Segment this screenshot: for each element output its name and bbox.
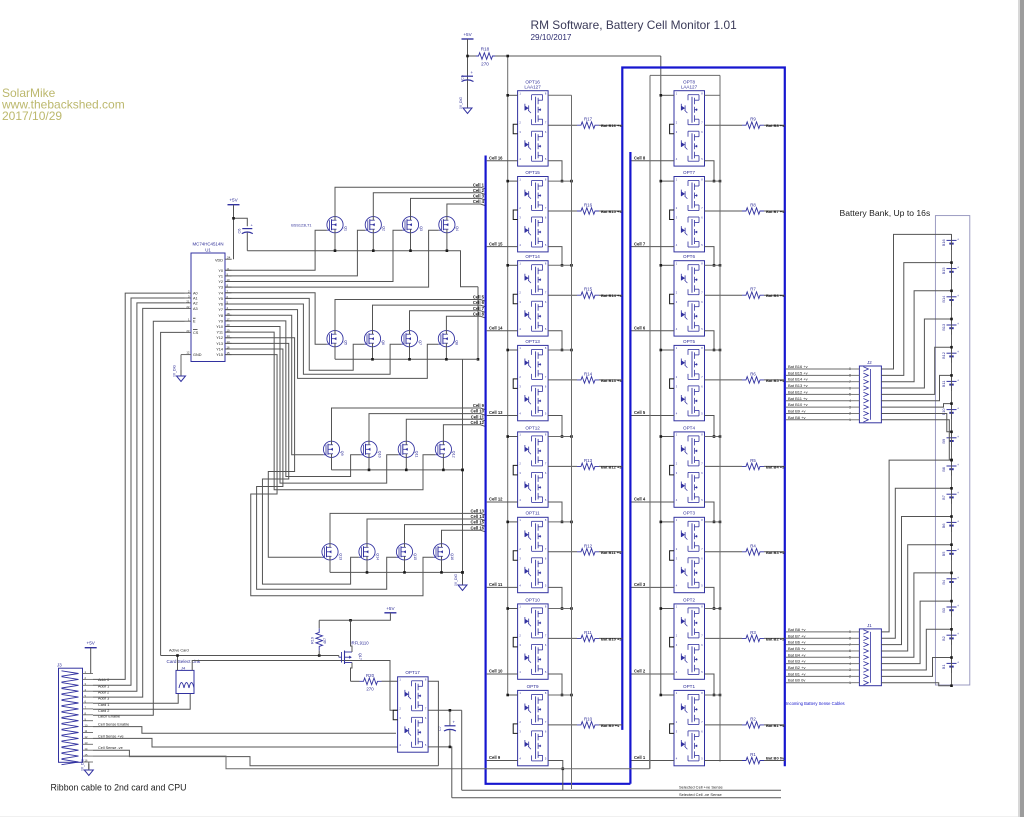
resistor R19: [311, 620, 328, 655]
transistor Q10: [361, 441, 381, 457]
svg-text:Bat B8 +s: Bat B8 +s: [766, 123, 785, 128]
svg-text:OPT11: OPT11: [525, 511, 540, 516]
wire active card: [161, 649, 398, 711]
wires U1 Y8-Y11 to row3 gates: [225, 315, 435, 489]
svg-text:U1: U1: [205, 248, 211, 253]
svg-text:B9: B9: [941, 439, 946, 444]
wire OPT1 pin5 lower resistor R1 feed: [705, 760, 743, 762]
wire OPT8 output via R9 to bus: [705, 123, 786, 128]
svg-text:OPT1: OPT1: [683, 684, 695, 689]
opto-relay OPT14 LAA127: [513, 254, 548, 336]
wire Q10 drain to bus Cell 10: [369, 409, 485, 442]
svg-text:B8: B8: [941, 467, 946, 472]
resistor R18: [466, 47, 495, 67]
opto-relay OPT9 LAA127: [513, 684, 548, 766]
wires U1 Y12-Y15 to row4 gates: [225, 338, 433, 596]
svg-text:R16: R16: [584, 203, 593, 208]
wire OPT8 pin1 rail stub: [660, 94, 721, 97]
connector J1: [849, 623, 881, 686]
power +5V for Q17: [319, 606, 396, 622]
svg-text:Q12: Q12: [452, 451, 456, 458]
wire selected cell +ve sense: [462, 785, 781, 791]
svg-text:0V_DIG: 0V_DIG: [459, 97, 463, 109]
battery B14: [941, 290, 959, 306]
transistor Q2: [365, 217, 385, 233]
wire Q6 drain to bus Cell 6: [373, 300, 485, 330]
battery B6: [941, 516, 959, 532]
svg-text:B6: B6: [941, 523, 946, 528]
resistor R16: [577, 203, 599, 215]
svg-text:Y11: Y11: [217, 331, 223, 335]
wire OPT15 output via R16 to bus: [548, 209, 622, 214]
svg-text:OPT17: OPT17: [405, 670, 420, 675]
svg-text:CS: CS: [193, 331, 199, 335]
wire OPT7 output via R8 to bus: [705, 209, 786, 214]
wire Q16 drain to bus Cell 16: [442, 525, 485, 543]
wire OPT2 pin5 chain: [705, 674, 716, 696]
battery B15: [941, 262, 959, 278]
transistor Q5: [327, 331, 347, 347]
wires J3 card pins to J4: [93, 694, 190, 710]
svg-text:+: +: [957, 435, 959, 439]
wire battery chain: [951, 234, 953, 685]
wire OPT5 pin1 rail stub: [660, 349, 722, 352]
opto-relay OPT4 LAA127: [670, 425, 705, 507]
wire OPT15 pin5 chain: [548, 247, 563, 267]
svg-text:Y10: Y10: [216, 325, 223, 329]
wire OPT7 pin5 chain: [705, 247, 716, 267]
svg-text:Cell 1: Cell 1: [634, 755, 646, 760]
wire OPT12 pin1 rail stub: [506, 435, 572, 438]
wire OPT1 output via R2 to bus: [705, 723, 786, 728]
resistor R12: [577, 543, 599, 555]
svg-text:R6: R6: [750, 371, 756, 376]
wire OPT7 pin1 rail stub: [660, 180, 722, 183]
wire OPT8 pin5 chain: [705, 161, 716, 183]
svg-text:Bat B9 +v: Bat B9 +v: [788, 408, 805, 413]
resistor R17: [577, 117, 599, 129]
svg-text:+: +: [957, 266, 959, 270]
wire OPT11 pin1 rail stub: [506, 521, 572, 524]
svg-text:Bat B4 +v: Bat B4 +v: [788, 652, 805, 657]
opto-relay OPT6 LAA127: [670, 254, 705, 336]
svg-text:Cell 14: Cell 14: [470, 514, 484, 519]
svg-text:Bat B0 0v: Bat B0 0v: [766, 755, 785, 760]
wire bus Cell 14 to OPT14 pin4: [487, 326, 518, 331]
opto-relay OPT11 LAA127: [513, 511, 548, 593]
wire OPT5 output via R6 to bus: [705, 378, 786, 383]
svg-text:Bat B16 +v: Bat B16 +v: [788, 364, 808, 369]
opto-relay OPT3 LAA127: [670, 511, 705, 593]
svg-text:B7: B7: [941, 495, 946, 500]
svg-text:Q1: Q1: [343, 226, 347, 231]
svg-text:+: +: [957, 237, 959, 241]
svg-text:Cell 16: Cell 16: [489, 156, 503, 161]
transistor Q9: [323, 441, 343, 457]
svg-text:Q10: Q10: [377, 451, 381, 458]
wire bus Cell 15 to OPT15 pin4: [487, 241, 518, 246]
svg-text:R2: R2: [750, 716, 756, 721]
battery B3: [941, 601, 959, 617]
svg-text:+5V: +5V: [386, 606, 395, 611]
svg-text:Q7: Q7: [418, 340, 422, 345]
svg-text:A0: A0: [193, 292, 198, 296]
svg-text:+: +: [957, 491, 959, 495]
svg-text:Cell 8: Cell 8: [634, 156, 646, 161]
svg-text:+: +: [957, 294, 959, 298]
svg-text:Addr 0: Addr 0: [98, 678, 109, 682]
svg-text:B10: B10: [941, 408, 946, 416]
svg-text:B12: B12: [941, 352, 946, 359]
battery B1: [941, 657, 959, 673]
wire Q1 drain to bus Cell 1: [335, 182, 485, 216]
svg-text:Bat B15 +v: Bat B15 +v: [788, 370, 808, 375]
svg-text:29/10/2017: 29/10/2017: [531, 33, 572, 42]
wire OPT3 pin1 rail stub: [660, 521, 722, 524]
wire OPT10 pin5 chain: [548, 674, 563, 696]
wire bus Cell 5 to OPT5 pin4: [632, 410, 675, 415]
svg-text:B3: B3: [941, 608, 946, 613]
svg-text:R4: R4: [750, 543, 756, 548]
wire bus Cell 7 to OPT7 pin4: [632, 241, 675, 246]
svg-text:Q3: Q3: [419, 226, 423, 231]
svg-text:Cell 16: Cell 16: [470, 525, 484, 530]
wire OPT13 pin1 rail stub: [506, 349, 572, 352]
svg-text:J3: J3: [57, 663, 62, 668]
svg-text:2017/10/29: 2017/10/29: [2, 109, 62, 123]
bus B right cell bus: [629, 152, 631, 784]
wire row2 source bus: [335, 347, 478, 361]
svg-text:Cell 6: Cell 6: [634, 326, 646, 331]
resistor R8: [742, 203, 764, 215]
svg-text:MC74HC4514N: MC74HC4514N: [193, 242, 224, 247]
svg-text:Battery Bank, Up to 16s: Battery Bank, Up to 16s: [840, 208, 931, 218]
svg-text:Cell 6: Cell 6: [473, 300, 485, 305]
wire bus Cell 1 to OPT1 pin4: [632, 755, 675, 760]
wire U1 CS to active card: [161, 332, 185, 655]
wire bus Cell 8 to OPT8 pin4: [632, 156, 675, 161]
svg-text:VDD: VDD: [215, 258, 223, 262]
wire Q4 drain to bus Cell 4: [447, 199, 485, 217]
wires U1 Y4-Y7 to row2 gates: [225, 293, 438, 379]
wire OPT1 pin1 rail stub: [660, 694, 722, 697]
svg-text:OPT13: OPT13: [525, 339, 540, 344]
svg-text:Cell 10: Cell 10: [470, 409, 484, 414]
svg-text:+5V: +5V: [229, 198, 238, 203]
svg-text:+: +: [957, 322, 959, 326]
wire OPT9 pin5 to sense: [548, 761, 564, 791]
svg-text:OPT9: OPT9: [527, 684, 539, 689]
svg-text:B16: B16: [941, 239, 946, 246]
wire Q2 drain to bus Cell 2: [373, 188, 485, 217]
wire bus Cell 2 to OPT2 pin4: [632, 669, 675, 674]
svg-text:GND: GND: [193, 353, 202, 357]
battery B5: [941, 544, 959, 560]
transistor Q16: [433, 544, 453, 560]
wire bus Cell 3 to OPT3 pin4: [632, 582, 675, 587]
svg-text:IRFL9110: IRFL9110: [351, 641, 370, 646]
opto-relay OPT7 LAA127: [670, 170, 705, 252]
svg-text:B4: B4: [941, 579, 946, 585]
wire OPT4 pin5 chain: [705, 502, 716, 523]
ground for U1: [173, 355, 186, 382]
svg-text:OPT4: OPT4: [683, 425, 695, 430]
svg-text:Q5: Q5: [343, 340, 347, 345]
svg-text:Q13: Q13: [338, 553, 342, 560]
wire right column outer rails: [650, 75, 720, 768]
svg-text:Bat B3 +v: Bat B3 +v: [788, 659, 805, 664]
svg-text:Q6: Q6: [381, 340, 385, 345]
svg-text:Bat B1 +s: Bat B1 +s: [766, 723, 785, 728]
svg-text:Bat B2 +s: Bat B2 +s: [766, 636, 785, 641]
svg-text:Selected Cell -ve Sense: Selected Cell -ve Sense: [679, 792, 722, 797]
svg-text:R8: R8: [750, 203, 756, 208]
wires bus to J1: [786, 627, 851, 683]
wire row1 source bus: [247, 233, 478, 287]
bus C Bat output bus: [622, 68, 785, 767]
svg-text:Bat B3 +s: Bat B3 +s: [766, 550, 785, 555]
battery bank box: [840, 208, 970, 685]
capacitor C7: [438, 710, 456, 747]
wire selected cell -ve sense: [452, 792, 781, 798]
svg-text:+5V: +5V: [463, 32, 472, 37]
resistor R10: [577, 716, 599, 728]
svg-text:Cell Sense Enable: Cell Sense Enable: [98, 723, 129, 727]
svg-text:Bat B5 +s: Bat B5 +s: [766, 378, 785, 383]
svg-text:Cell 7: Cell 7: [473, 306, 485, 311]
opto-relay OPT2 LAA127: [670, 597, 705, 679]
resistor R11: [577, 630, 599, 642]
svg-text:R18: R18: [481, 47, 490, 52]
wire OPT2 pin1 rail stub: [660, 607, 722, 610]
transistor Q3: [402, 217, 422, 233]
wire OPT13 output via R14 to bus: [548, 378, 622, 383]
wire Q13 drain to bus Cell 13: [330, 509, 485, 544]
svg-text:C6: C6: [238, 229, 242, 234]
svg-text:R15: R15: [584, 287, 593, 292]
svg-text:Bat B6 +s: Bat B6 +s: [766, 293, 785, 298]
svg-text:Cell 15: Cell 15: [489, 241, 503, 246]
svg-text:Cell 3: Cell 3: [634, 582, 646, 587]
wire source rail to ground: [461, 359, 464, 584]
svg-text:Cell 1: Cell 1: [473, 182, 485, 187]
wire bus Cell 12 to OPT12 pin4: [487, 497, 518, 502]
connector J3 ribbon: [57, 663, 93, 765]
opto-relay OPT12 LAA127: [513, 425, 548, 507]
svg-text:A2: A2: [193, 301, 198, 305]
svg-text:Bat B7 +s: Bat B7 +s: [766, 209, 785, 214]
resistor R1 extra: [742, 752, 785, 764]
wire row3 source bus: [332, 457, 464, 471]
svg-text:OPT3: OPT3: [683, 511, 695, 516]
wire Q7 drain to bus Cell 7: [410, 306, 485, 331]
svg-text:Y12: Y12: [216, 336, 223, 340]
wire OPT15 pin1 rail stub: [506, 180, 572, 183]
battery B8: [941, 460, 959, 476]
svg-text:Y0: Y0: [218, 269, 223, 273]
wire R18 output to opto rails: [495, 55, 661, 695]
svg-text:Cell 13: Cell 13: [489, 410, 503, 415]
wire OPT16 pin5 chain: [548, 161, 563, 183]
wire OPT13 pin5 chain: [548, 416, 563, 438]
svg-text:Y8: Y8: [218, 314, 223, 318]
battery B2: [941, 629, 959, 645]
svg-text:Incoming Battery Sense Cables: Incoming Battery Sense Cables: [786, 701, 845, 706]
opto-relay OPT16 LAA127: [513, 80, 548, 167]
svg-text:OPT2: OPT2: [683, 597, 695, 602]
power +5V for J3: [85, 641, 97, 674]
wire OPT16 pin1 rail stub: [506, 94, 571, 97]
svg-text:B2: B2: [941, 636, 946, 641]
transistor Q6: [364, 331, 384, 347]
svg-text:LAA127: LAA127: [524, 85, 541, 90]
svg-text:Y3: Y3: [218, 286, 223, 290]
svg-text:+: +: [957, 548, 959, 552]
svg-text:Q15: Q15: [413, 553, 417, 560]
wire Q12 drain to bus Cell 12: [443, 420, 484, 441]
wire OPT14 pin1 rail stub: [506, 264, 572, 267]
svg-text:Card Select Link: Card Select Link: [167, 659, 201, 664]
svg-text:OPT15: OPT15: [525, 170, 540, 175]
svg-text:Cell 5: Cell 5: [473, 295, 485, 300]
svg-text:270: 270: [366, 687, 374, 692]
wire OPT3 output via R4 to bus: [705, 550, 786, 555]
svg-text:Bat B10 +s: Bat B10 +s: [601, 636, 622, 641]
svg-text:Q8: Q8: [455, 340, 459, 345]
svg-text:Bat B13 +v: Bat B13 +v: [788, 383, 808, 388]
wire OPT11 pin5 chain: [548, 587, 563, 609]
wires bus to J2: [786, 364, 851, 420]
transistor Q15: [396, 544, 416, 560]
svg-text:Q14: Q14: [375, 553, 379, 560]
svg-text:BSS123LT1: BSS123LT1: [291, 223, 311, 227]
svg-text:J1: J1: [867, 623, 872, 628]
svg-text:B13: B13: [941, 324, 946, 331]
svg-text:B1: B1: [941, 664, 946, 669]
svg-text:Cell 4: Cell 4: [473, 199, 485, 204]
svg-text:OPT10: OPT10: [525, 597, 540, 602]
svg-text:Bat B0 0v: Bat B0 0v: [788, 678, 805, 683]
svg-text:R12: R12: [584, 543, 593, 548]
ground for J3: [80, 759, 93, 776]
capacitor C6: [232, 217, 253, 251]
svg-text:Y1: Y1: [218, 274, 223, 278]
wires OPT17 outputs: [428, 681, 462, 797]
svg-text:Bat B13 +s: Bat B13 +s: [601, 378, 622, 383]
svg-text:Q4: Q4: [455, 226, 459, 231]
wire Q5 drain to bus Cell 5: [335, 295, 485, 331]
svg-text:OPT12: OPT12: [525, 425, 540, 430]
wires cell sense from J3: [93, 727, 650, 769]
svg-text:+: +: [957, 604, 959, 608]
svg-text:R20: R20: [366, 673, 375, 678]
wire OPT2 output via R3 to bus: [705, 636, 786, 641]
resistor R15: [577, 287, 599, 299]
battery B10: [941, 403, 959, 419]
resistor R6: [742, 371, 764, 383]
svg-text:OPT14: OPT14: [525, 254, 540, 259]
svg-text:Q17: Q17: [358, 653, 362, 660]
opto-relay OPT8 LAA127: [670, 80, 705, 167]
svg-text:0V_DIG: 0V_DIG: [80, 759, 84, 771]
svg-text:Cell 15: Cell 15: [470, 520, 484, 525]
svg-text:J2: J2: [867, 360, 872, 365]
wire Q3 drain to bus Cell 3: [411, 194, 485, 217]
wire OPT12 output via R13 to bus: [548, 464, 622, 469]
svg-text:Cell 12: Cell 12: [470, 420, 484, 425]
svg-text:Bat B15 +s: Bat B15 +s: [601, 209, 622, 214]
svg-text:Cell 12: Cell 12: [489, 497, 503, 502]
svg-text:4k7: 4k7: [323, 638, 327, 644]
wire OPT6 output via R7 to bus: [705, 293, 786, 298]
svg-text:Cell Sense -ve: Cell Sense -ve: [98, 746, 123, 750]
opto-relay OPT13 LAA127: [513, 339, 548, 421]
opto-relay OPT10 LAA127: [513, 597, 548, 679]
svg-text:Cell 2: Cell 2: [473, 188, 485, 193]
svg-text:R5: R5: [750, 458, 756, 463]
bus A left cell bus: [486, 156, 631, 784]
svg-text:Cell 13: Cell 13: [470, 509, 484, 514]
wire return rail x478: [477, 287, 480, 361]
svg-text:Bat B5 +v: Bat B5 +v: [788, 646, 805, 651]
transistor Q8: [438, 331, 458, 347]
wire bus Cell 11 to OPT11 pin4: [487, 582, 518, 587]
wire OPT6 pin1 rail stub: [660, 264, 722, 267]
svg-text:Y13: Y13: [216, 342, 223, 346]
resistor R2: [742, 716, 764, 728]
transistor Q12: [435, 441, 455, 457]
svg-text:R19: R19: [311, 637, 315, 644]
svg-text:Bat B6 +v: Bat B6 +v: [788, 640, 805, 645]
connector J2: [849, 360, 881, 423]
svg-text:+: +: [957, 350, 959, 354]
power +5V top: [462, 32, 474, 107]
wire Q15 drain to bus Cell 15: [405, 520, 485, 544]
opto-relay OPT15 LAA127: [513, 170, 548, 252]
svg-text:12: 12: [186, 351, 190, 355]
wire Q14 drain to bus Cell 14: [367, 514, 485, 544]
wire OPT9 pin1 rail stub: [506, 694, 572, 697]
svg-text:Cell 3: Cell 3: [473, 194, 485, 199]
ground digital mid: [454, 574, 467, 591]
battery B9: [941, 431, 959, 447]
wire OPT10 pin1 rail stub: [506, 607, 572, 610]
wire OPT9 output via R10 to bus: [548, 723, 622, 728]
svg-text:Active Card: Active Card: [169, 649, 189, 653]
svg-text:Cell 9: Cell 9: [473, 403, 485, 408]
transistor Q17 IRFL9110: [339, 620, 369, 681]
svg-text:Y15: Y15: [216, 353, 223, 357]
svg-text:R10: R10: [584, 716, 593, 721]
svg-text:R3: R3: [750, 630, 756, 635]
svg-text:Bat B14 +s: Bat B14 +s: [601, 293, 622, 298]
svg-text:R13: R13: [584, 458, 593, 463]
svg-text:Q9: Q9: [340, 451, 344, 456]
svg-text:Bat B1 +v: Bat B1 +v: [788, 671, 805, 676]
transistor Q13: [322, 544, 342, 560]
svg-text:Y9: Y9: [218, 319, 223, 323]
opto-relay OPT17: [393, 670, 428, 752]
wire OPT14 output via R15 to bus: [548, 293, 622, 298]
svg-text:Bat B14 +v: Bat B14 +v: [788, 377, 808, 382]
svg-text:Cell 2: Cell 2: [634, 669, 646, 674]
wire row4 source bus: [330, 560, 464, 574]
svg-text:RM Software, Battery Cell Moni: RM Software, Battery Cell Monitor 1.01: [531, 18, 738, 32]
svg-text:Bat B2 +v: Bat B2 +v: [788, 665, 805, 670]
svg-text:Bat B7 +v: Bat B7 +v: [788, 633, 805, 638]
svg-text:Bat B11 +v: Bat B11 +v: [788, 396, 807, 401]
svg-text:A3: A3: [193, 307, 198, 311]
